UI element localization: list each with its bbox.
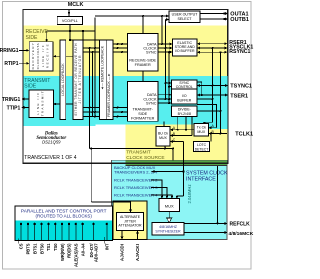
svg-text:USER OUTPUT: USER OUTPUT (172, 13, 199, 17)
backup vertical wire (183, 142, 185, 197)
local loopback bar (60, 40, 66, 120)
recovery clock/data line i/f receive box (29, 42, 53, 71)
transmit side cyan region mid (96, 76, 195, 125)
svg-text:(ROUTED TO ALL BLOCKS): (ROUTED TO ALL BLOCKS) (36, 214, 93, 219)
buffer right wire 2 (197, 105, 216, 128)
AJACKI wire (137, 234, 139, 240)
svg-text:CLOCK SOURCE: CLOCK SOURCE (126, 155, 164, 161)
framer loopback bar (106, 40, 113, 120)
svg-text:MUX: MUX (197, 130, 205, 134)
transceiver-aja wire (91, 202, 130, 213)
TSYNC1 wire (197, 85, 227, 87)
line i/f transmit box (29, 90, 54, 118)
svg-text:LOCAL LOOPBACK: LOCAL LOOPBACK (61, 63, 65, 96)
svg-text:OUTB1: OUTB1 (230, 17, 249, 23)
svg-text:AD0–AD7: AD0–AD7 (93, 243, 98, 262)
right vertical bus 1 (212, 48, 214, 122)
svg-text:AJACKI: AJACKI (135, 244, 140, 261)
mux output arrow (168, 212, 170, 219)
right vertical bus 2 (220, 52, 222, 133)
svg-text:REFCLK: REFCLK (230, 221, 251, 227)
i/o buffer box (172, 89, 197, 104)
transmit clock source yellow region (126, 125, 195, 161)
sync control box (172, 80, 197, 89)
svg-text:4/8/16MHZ: 4/8/16MHZ (159, 225, 178, 229)
svg-text:TS0: TS0 (53, 243, 58, 251)
svg-text:CS: CS (19, 243, 24, 249)
line i/f output wire (54, 103, 73, 105)
svg-text:DETECT: DETECT (195, 147, 209, 151)
receive sync wire (83, 51, 128, 53)
svg-text:ALE(AS)/AS: ALE(AS)/AS (74, 243, 79, 267)
elastic store box (173, 39, 198, 56)
svg-text:TRANSMIT: TRANSMIT (126, 149, 151, 155)
transmit wire 3 (83, 116, 128, 118)
svg-text:VCO/PLL: VCO/PLL (62, 19, 78, 23)
svg-text:INT: INT (105, 243, 110, 250)
page frame (3, 2, 252, 270)
svg-text:SIDE: SIDE (24, 83, 36, 89)
receive clock wire (83, 47, 128, 49)
OUTA1 wire (200, 13, 227, 15)
transmit side cyan region right (194, 76, 227, 129)
remote loopback bar (100, 40, 107, 120)
svg-text:INTERFACE: INTERFACE (186, 177, 216, 183)
CS overline (17, 239, 19, 244)
left vertical bus B (92, 52, 94, 117)
svg-text:TRANSMIT-: TRANSMIT- (132, 108, 153, 112)
svg-text:4/8/16MCK: 4/8/16MCK (229, 231, 254, 237)
svg-text:AJACDI: AJACDI (120, 244, 125, 261)
svg-text:JITTER ATTENUATOR: JITTER ATTENUATOR (78, 55, 82, 104)
svg-text:TRING1: TRING1 (2, 97, 21, 103)
svg-text:CLOCK/DATA: CLOCK/DATA (36, 42, 40, 69)
divide output wire (197, 110, 221, 112)
svg-text:PBTS: PBTS (26, 243, 31, 254)
receive side yellow region (24, 26, 227, 77)
bu clock return wire (90, 148, 174, 150)
svg-text:WR(R/W): WR(R/W) (60, 243, 65, 261)
svg-text:I/O BUFFER: I/O BUFFER (175, 49, 195, 53)
AJACDI wire (121, 231, 123, 239)
svg-text:RSYNC1: RSYNC1 (229, 49, 250, 55)
mux box (159, 199, 180, 212)
formatter right wires (158, 94, 172, 96)
svg-text:FORMATTER: FORMATTER (131, 117, 155, 121)
transceiver 1 outer box (23, 10, 228, 164)
user output select input wires (95, 15, 169, 17)
svg-text:SIDE: SIDE (138, 112, 147, 116)
svg-text:MUX: MUX (159, 136, 167, 140)
svg-text:TS1: TS1 (46, 243, 51, 251)
svg-text:BY-2/4/8: BY-2/4/8 (178, 112, 191, 116)
svg-text:TRANSCEIVER 1 OF 4: TRANSCEIVER 1 OF 4 (24, 155, 76, 161)
svg-text:TSER1: TSER1 (230, 94, 248, 100)
svg-text:RD(DS): RD(DS) (67, 243, 72, 258)
synthesizer box (152, 223, 184, 236)
alternate jitter attenuator block (113, 201, 147, 240)
lotc detect box (194, 142, 210, 152)
svg-text:SYNC: SYNC (146, 101, 157, 105)
divide bottom taps (177, 117, 179, 130)
user output select box (169, 11, 200, 23)
svg-text:TSYNC1: TSYNC1 (230, 84, 252, 90)
svg-text:RRING1: RRING1 (0, 48, 19, 54)
sync-buffer link (197, 82, 202, 95)
system clock cyan region (112, 160, 228, 239)
svg-text:BUFFER: BUFFER (177, 99, 191, 103)
green strip (126, 160, 228, 165)
svg-text:SIDE: SIDE (26, 35, 38, 41)
svg-text:TCLK1: TCLK1 (235, 132, 253, 138)
svg-text:SYNTHESIZER: SYNTHESIZER (155, 230, 181, 234)
svg-text:BTS1: BTS1 (32, 243, 37, 254)
svg-text:FRAMER LOOPBACK —►: FRAMER LOOPBACK —► (107, 73, 111, 117)
RSER1 wire (197, 43, 227, 45)
buffer right wire 1 (197, 98, 213, 100)
parallel port box (15, 206, 112, 241)
divide-by box (172, 106, 197, 117)
svg-text:BU Ck: BU Ck (158, 132, 168, 136)
svg-text:Tx Ck: Tx Ck (197, 126, 206, 130)
port cyan strip (16, 221, 112, 241)
vco/pll box (57, 17, 82, 25)
SYSCLK1 wire (197, 47, 227, 49)
REFCLK wire (184, 222, 226, 224)
lotc wire (210, 134, 212, 142)
transceiver box bottom edge (23, 162, 228, 164)
4/8/16MCK wire (184, 232, 226, 234)
sync control stubs (166, 82, 172, 84)
svg-text:RECOVERY: RECOVERY (31, 43, 35, 69)
svg-text:◄— REMOTE LOOPBACK: ◄— REMOTE LOOPBACK (100, 45, 104, 90)
svg-text:2.048MHz: 2.048MHz (187, 184, 192, 203)
formatter-bu mux wire (163, 121, 165, 126)
backup title wire (152, 171, 184, 173)
recovery output wire (53, 55, 73, 57)
svg-text:FRAMER: FRAMER (135, 63, 151, 67)
jitter attenuator bar (73, 40, 83, 120)
svg-text:BTS0: BTS0 (39, 243, 44, 254)
svg-text:ATTENUATOR: ATTENUATOR (118, 224, 142, 228)
bu mux output (164, 146, 166, 149)
transmit side cyan region left (24, 76, 96, 126)
mux input dots (161, 196, 163, 198)
port pin labels (19, 243, 110, 267)
framer-elastic wires (158, 43, 173, 45)
svg-text:MCLK: MCLK (68, 2, 84, 8)
svg-text:I/O: I/O (182, 94, 187, 98)
svg-text:A0–A4: A0–A4 (80, 243, 85, 256)
svg-text:CONTROL: CONTROL (176, 85, 193, 89)
tx clock mux box (194, 124, 209, 137)
svg-text:DS21Q59: DS21Q59 (42, 139, 61, 144)
svg-text:SELECT: SELECT (178, 17, 193, 21)
framer vertical bus 3 (168, 52, 170, 103)
svg-text:RTIP1: RTIP1 (4, 61, 18, 67)
svg-text:SYNC: SYNC (146, 51, 157, 55)
INT overline (103, 237, 105, 243)
svg-text:RECEIVE-SIDE: RECEIVE-SIDE (129, 58, 156, 62)
MCLK wire (68, 10, 70, 17)
transmit wire 2 (83, 111, 128, 113)
transmit-side formatter box (128, 82, 158, 122)
bu clock mux box (156, 127, 170, 147)
framer-formatter wire (142, 71, 144, 82)
RSYNC1 wire (197, 51, 227, 53)
svg-text:TTIP1: TTIP1 (7, 105, 21, 111)
receive data wire (100, 43, 128, 45)
vco output wires (69, 25, 71, 41)
left vertical bus A (89, 48, 91, 149)
svg-text:MUX: MUX (165, 204, 174, 209)
TSER1 wire (197, 94, 227, 96)
transmit wire 1 (83, 107, 128, 109)
OUTB1 wire (200, 18, 227, 20)
port pin lines (21, 222, 107, 240)
receive-side framer box (128, 34, 158, 72)
